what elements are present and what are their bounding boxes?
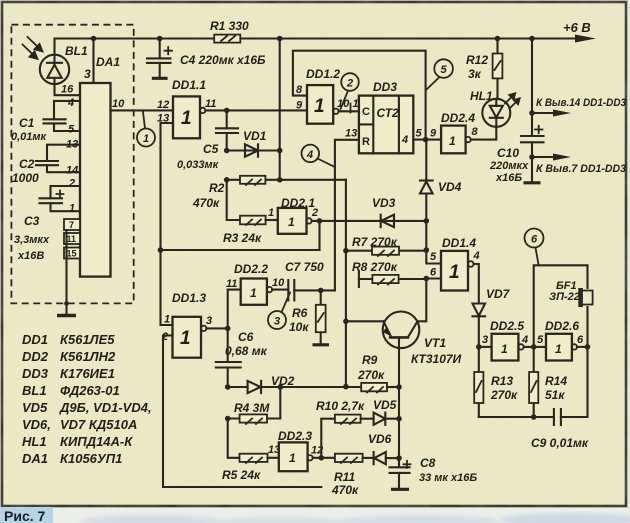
node: VD1 right: [277, 148, 283, 154]
svg-text:R13: R13: [491, 374, 513, 388]
DD1.4 output bubble: [468, 261, 474, 267]
node: VD1 left: [224, 148, 230, 154]
capacitor C9: [554, 409, 561, 425]
svg-text:R5 24к: R5 24к: [222, 468, 261, 482]
wire DD2.5 out to DD2.6 in: [524, 346, 546, 348]
node: R2 left: [224, 177, 230, 183]
wire C5/R2 bus down to R3: [227, 180, 240, 220]
wire DD2.2 input from DD1.3 output: [228, 290, 241, 329]
diode VD4: [420, 181, 433, 194]
wire pin boxes to ground: [65, 230, 67, 315]
svg-text:С4 220мк х16Б: С4 220мк х16Б: [180, 53, 266, 67]
svg-text:R14: R14: [545, 374, 567, 388]
node: DD3 out / feedback / VD4: [423, 137, 429, 143]
capacitor C1: [44, 101, 81, 131]
resistor R10: [335, 415, 374, 424]
diode VD3: [381, 215, 394, 227]
svg-text:Д9Б, VD1-VD4,: Д9Б, VD1-VD4,: [59, 400, 152, 415]
wire DD1.1 output to DD1.2 pin 9: [205, 109, 307, 111]
svg-text:ФД263-01: ФД263-01: [60, 383, 120, 398]
svg-text:R1 330: R1 330: [210, 19, 249, 33]
svg-text:7: 7: [69, 220, 74, 230]
node circle 5: [427, 59, 453, 89]
node: R14 bottom: [531, 414, 537, 420]
node: VD2 right: [278, 384, 284, 390]
svg-text:VD5: VD5: [373, 398, 397, 412]
node: pin 12 net: [319, 455, 325, 461]
svg-text:х16В: х16В: [17, 250, 44, 262]
svg-text:DD2: DD2: [22, 349, 49, 364]
node: rail to C4: [157, 36, 163, 42]
svg-text:КТ3107И: КТ3107И: [411, 352, 462, 366]
svg-text:6: 6: [531, 234, 538, 246]
wire DD1.3 pin 2 to bottom bus: [163, 336, 321, 488]
svg-text:2: 2: [346, 78, 353, 90]
photodiode BL1: [40, 39, 94, 96]
svg-text:DD1.4: DD1.4: [442, 236, 476, 250]
svg-text:R6: R6: [292, 306, 308, 320]
svg-text:4: 4: [306, 149, 313, 161]
figure label Рис. 7: [0, 507, 53, 523]
svg-text:1: 1: [449, 134, 456, 148]
svg-text:8: 8: [296, 84, 303, 96]
node: bias bus bottom: [343, 384, 349, 390]
svg-text:5: 5: [430, 251, 437, 263]
svg-text:R12: R12: [466, 53, 488, 67]
wire bottom RC bus: [479, 416, 554, 418]
svg-text:270к: 270к: [490, 388, 518, 402]
wire pin12 net to R10: [321, 419, 335, 458]
resistor R5: [240, 454, 279, 463]
svg-text:DA1: DA1: [22, 451, 48, 466]
svg-text:DD2.6: DD2.6: [545, 319, 579, 333]
svg-text:9: 9: [296, 100, 303, 112]
node: C5 tap: [224, 108, 230, 114]
wire DD1.4 pin 5: [426, 250, 441, 263]
svg-text:Рис. 7: Рис. 7: [4, 508, 46, 523]
svg-text:VD4: VD4: [438, 180, 462, 194]
svg-text:R: R: [362, 136, 370, 148]
svg-text:DD2.4: DD2.4: [441, 111, 475, 125]
svg-text:HL1: HL1: [22, 434, 47, 449]
wire DD3 R input from reset bus: [335, 140, 359, 291]
gate DD2.1: [278, 208, 307, 234]
node circle 6: [525, 229, 544, 265]
diode VD2: [228, 381, 281, 393]
node: C6 top: [225, 326, 231, 332]
svg-text:470к: 470к: [331, 483, 359, 497]
svg-text:К561ЛЕ5: К561ЛЕ5: [60, 332, 115, 347]
DA1 pin 7 box: [64, 219, 80, 230]
svg-text:220мкх: 220мкх: [489, 160, 529, 172]
gate DD1.1: [173, 96, 200, 138]
svg-text:R2: R2: [209, 181, 225, 195]
node: pin6/R8/collector: [424, 276, 430, 282]
diode VD7: [473, 304, 486, 347]
svg-text:С7 750: С7 750: [285, 260, 324, 274]
svg-text:VD7 КД510А: VD7 КД510А: [60, 417, 137, 432]
capacitor C10 polarized: [521, 126, 544, 143]
svg-text:VD3: VD3: [372, 196, 396, 210]
paper mottle texture: [0, 0, 1, 1]
svg-text:2: 2: [311, 207, 318, 219]
DA1 pin 11 box: [64, 233, 80, 244]
resistor R9: [361, 383, 399, 393]
wire DD3 output to DD2.4: [413, 139, 441, 141]
svg-text:К Выв.7 DD1-DD3: К Выв.7 DD1-DD3: [536, 163, 626, 175]
IC DA1 body: [80, 83, 111, 277]
wire DD1.2 pin 8 feedback from DD3 output: [293, 51, 426, 140]
svg-text:КИПД14А-К: КИПД14А-К: [60, 434, 133, 449]
svg-text:К561ЛН2: К561ЛН2: [60, 349, 116, 364]
wire DD2.6 out down: [561, 347, 588, 417]
svg-text:С9 0,01мк: С9 0,01мк: [531, 436, 589, 450]
svg-text:VD5: VD5: [22, 400, 48, 415]
resistor R6: [316, 290, 326, 343]
DD2.5 output bubble: [518, 344, 523, 349]
svg-text:С5: С5: [203, 142, 219, 156]
svg-text:С1: С1: [19, 116, 35, 130]
wire R4 bus to R5: [228, 419, 240, 458]
svg-text:DD2.3: DD2.3: [278, 429, 312, 443]
resistor R2: [227, 176, 346, 185]
svg-text:1: 1: [555, 342, 562, 356]
svg-text:13: 13: [345, 128, 357, 140]
wire collector riser: [419, 279, 426, 322]
svg-text:16: 16: [61, 84, 74, 96]
svg-text:х16Б: х16Б: [495, 172, 522, 184]
svg-text:12: 12: [157, 99, 169, 111]
svg-text:470к: 470к: [192, 196, 220, 210]
capacitor C2: [36, 145, 80, 173]
gate DD1.2: [307, 85, 333, 124]
svg-text:С8: С8: [420, 456, 436, 470]
pin separator tick: [350, 104, 352, 113]
svg-text:4: 4: [521, 334, 528, 346]
svg-text:1: 1: [268, 207, 274, 219]
svg-text:10: 10: [112, 98, 125, 110]
resistor R11: [335, 454, 374, 463]
svg-text:10: 10: [272, 277, 285, 289]
wire DD1.3 pin 1: [161, 250, 173, 325]
svg-text:VD1: VD1: [243, 129, 267, 143]
svg-text:3: 3: [482, 334, 488, 346]
svg-text:VD6: VD6: [368, 432, 392, 446]
svg-text:3: 3: [84, 67, 91, 81]
svg-text:5: 5: [537, 334, 544, 346]
svg-text:1: 1: [449, 262, 460, 283]
diode VD6: [374, 452, 399, 464]
svg-text:2: 2: [68, 178, 75, 190]
wire lower bus: [161, 249, 320, 251]
svg-text:13: 13: [66, 139, 78, 151]
wire C10 drop from rail: [531, 39, 533, 182]
svg-text:1: 1: [181, 108, 192, 129]
ground bar under R6: [313, 343, 330, 346]
wire DA1 pin 3: [92, 39, 94, 84]
svg-text:DD1.3: DD1.3: [172, 291, 206, 305]
bottom caption strip: [0, 508, 630, 523]
svg-text:R11: R11: [334, 470, 355, 484]
node: VD2 left: [225, 384, 231, 390]
wire DD2.3 output: [313, 457, 335, 459]
svg-text:СТ2: СТ2: [377, 106, 400, 120]
DD2.4 output bubble: [465, 137, 470, 142]
wire DD1.4 output to VD7: [474, 264, 479, 304]
svg-text:1000: 1000: [12, 171, 39, 185]
svg-text:DD2.2: DD2.2: [234, 262, 268, 276]
wire bias bus R2 to VT1/R9: [345, 180, 347, 387]
node circle 4: [302, 145, 335, 167]
svg-text:0,68 мк: 0,68 мк: [225, 344, 268, 358]
wire to pin 14 arrow: [532, 112, 558, 114]
svg-text:14: 14: [66, 165, 78, 177]
capacitor C4 polarized: [147, 39, 172, 78]
wire collector column: [398, 387, 400, 467]
svg-text:11: 11: [205, 98, 216, 110]
resistor R12: [493, 39, 503, 99]
svg-text:4: 4: [67, 97, 74, 109]
svg-text:R10 2,7к: R10 2,7к: [316, 399, 365, 413]
wire DD1.1 pin 13 down to lower bus: [161, 123, 174, 250]
svg-text:5: 5: [68, 124, 75, 136]
node circle 3: [268, 293, 290, 330]
svg-text:R9: R9: [362, 353, 378, 367]
node: DD2.1 out drop: [317, 218, 323, 224]
resistor R1: [214, 35, 240, 43]
svg-text:3: 3: [206, 315, 212, 327]
node: R7 left: [343, 248, 349, 254]
counter DD3 body: [359, 96, 413, 154]
DD1.3 output bubble: [201, 326, 206, 331]
svg-text:С10: С10: [497, 146, 519, 160]
svg-text:1: 1: [314, 96, 325, 117]
node: emitter on bias bus: [343, 319, 349, 325]
svg-text:С6: С6: [238, 330, 254, 344]
svg-text:1: 1: [69, 203, 75, 215]
svg-text:DD1.2: DD1.2: [306, 67, 340, 81]
svg-text:R4 3М: R4 3М: [234, 401, 270, 415]
svg-text:1: 1: [353, 98, 359, 110]
svg-text:DD1.1: DD1.1: [172, 78, 206, 92]
node: R7 right / DD1.4 pin 5: [424, 247, 430, 253]
svg-text:0,033мк: 0,033мк: [177, 159, 220, 171]
node: R4 left: [225, 416, 231, 422]
svg-text:10к: 10к: [289, 320, 309, 334]
wire DD1.4 pin 6: [426, 277, 441, 279]
svg-text:R3 24к: R3 24к: [223, 231, 262, 245]
svg-text:DD3: DD3: [22, 366, 49, 381]
capacitor C5: [216, 110, 238, 150]
svg-text:3,3мкх: 3,3мкх: [14, 234, 50, 246]
gate DD2.3: [279, 442, 308, 471]
svg-text:DD2.5: DD2.5: [490, 319, 524, 333]
gate DD2.4: [441, 126, 466, 154]
wire to pin 7 arrow: [532, 156, 558, 158]
wire DD1.2 output to DD3 C input: [339, 110, 359, 112]
svg-text:VD7: VD7: [486, 287, 511, 301]
svg-text:5: 5: [441, 64, 448, 76]
capacitor C8 polarized: [390, 461, 411, 488]
resistor R13: [474, 347, 483, 417]
wire DD2.6 out: [577, 346, 588, 348]
svg-text:BL1: BL1: [22, 383, 47, 398]
ground bar under C4: [152, 77, 168, 80]
capacitor C7: [272, 280, 335, 301]
node: R2 at rail drop: [277, 177, 283, 183]
svg-text:C: C: [362, 106, 370, 118]
svg-text:1: 1: [164, 314, 170, 326]
ground bar under DA1: [57, 314, 76, 317]
node: R14/loop tap: [531, 344, 537, 350]
svg-text:DA1: DA1: [96, 55, 120, 69]
transistor VT1: [346, 312, 419, 388]
svg-text:DD3: DD3: [373, 80, 397, 94]
gate DD1.3: [173, 317, 202, 358]
svg-text:1: 1: [180, 328, 191, 349]
wire drop to lower bus: [318, 221, 320, 250]
resistor R3: [240, 216, 278, 225]
svg-text:ЗП-22: ЗП-22: [549, 291, 580, 303]
svg-text:С2: С2: [19, 157, 35, 171]
svg-text:5: 5: [416, 128, 423, 140]
svg-text:1: 1: [143, 133, 149, 145]
svg-text:8: 8: [472, 126, 479, 138]
light arrows into BL1: [23, 37, 45, 60]
node circle 1: [137, 112, 155, 147]
node: VD3/VD4 junction: [424, 218, 430, 224]
+6V power rail: [55, 37, 581, 39]
svg-text:С3: С3: [24, 214, 40, 228]
svg-text:3: 3: [274, 316, 280, 328]
node: rail junction above DA1 pin 3: [91, 36, 97, 42]
svg-text:270к: 270к: [357, 368, 385, 382]
svg-text:6: 6: [577, 334, 584, 346]
svg-text:DD1: DD1: [22, 332, 48, 347]
svg-text:VT1: VT1: [424, 336, 446, 350]
svg-text:11: 11: [67, 234, 77, 244]
LED HL1: [482, 92, 521, 127]
resistor R7: [346, 247, 426, 256]
DA1 pin 15 box: [64, 248, 80, 259]
svg-text:К176ИЕ1: К176ИЕ1: [60, 366, 115, 381]
wire DA1 pin 10 to DD1.1 pin 12: [111, 109, 174, 111]
wire VD2 node to R9: [280, 386, 361, 388]
svg-text:1: 1: [288, 215, 295, 229]
svg-text:4: 4: [401, 134, 408, 146]
wire BF1 feedback loop: [534, 265, 588, 347]
dashed optical-module box: [11, 25, 133, 304]
ground bar under C10: [524, 181, 541, 184]
svg-text:1: 1: [501, 342, 508, 356]
svg-text:51к: 51к: [545, 388, 565, 402]
node: VD7/R13/pin3: [476, 344, 482, 350]
+6V arrowhead: [575, 35, 596, 43]
svg-text:К Выв.14 DD1-DD3: К Выв.14 DD1-DD3: [536, 97, 626, 109]
gate DD2.6: [546, 334, 572, 361]
node: R6 top: [318, 288, 324, 294]
node: collector/R9: [396, 384, 402, 390]
node: VD5 join: [396, 416, 402, 422]
resistor R8 with stub terminal: [359, 271, 426, 287]
DD2.3 output bubble: [307, 455, 312, 460]
capacitor C6: [216, 328, 241, 387]
node: bus left: [158, 247, 164, 253]
svg-text:15: 15: [67, 249, 77, 259]
gate DD2.2: [241, 279, 267, 305]
DD2.1 output bubble: [306, 218, 311, 223]
DD2.2 output bubble: [267, 287, 272, 292]
svg-text:1: 1: [250, 286, 257, 300]
node: pin14 tap: [529, 110, 535, 116]
DD2.6 output bubble: [572, 344, 577, 349]
capacitor C3 polarized: [40, 186, 81, 211]
wire DD2.1 output / VD3 line: [312, 220, 427, 222]
ground bar under C8: [391, 488, 409, 491]
wire VD4 branch: [425, 140, 427, 251]
diode VD1: [227, 144, 280, 156]
wire rail drop at R1 right: [279, 39, 281, 180]
gate DD2.5: [492, 334, 519, 361]
svg-text:6: 6: [430, 267, 437, 279]
resistor R4: [228, 387, 281, 424]
svg-text:К1056УП1: К1056УП1: [60, 451, 122, 466]
node: BF1 column: [585, 344, 591, 350]
svg-text:1: 1: [289, 451, 296, 465]
svg-text:9: 9: [430, 128, 437, 140]
svg-text:11: 11: [226, 278, 237, 290]
wire DD2.4 output to HL1: [471, 127, 497, 140]
svg-text:33 мк х16Б: 33 мк х16Б: [419, 472, 477, 484]
diode VD5: [374, 413, 399, 425]
sounder BF1: [578, 288, 592, 347]
node: VD6 join: [396, 455, 402, 461]
svg-text:3к: 3к: [468, 67, 482, 81]
svg-text:+6 В: +6 В: [563, 20, 591, 35]
DD1.1 output bubble: [200, 108, 205, 113]
resistor R14: [529, 347, 538, 417]
svg-text:VD6,: VD6,: [22, 417, 51, 432]
svg-text:4: 4: [473, 250, 480, 262]
DD1.2 output bubble: [333, 109, 338, 114]
wire DD1.3 output: [206, 327, 227, 329]
wire to DD2.5 input: [479, 346, 492, 348]
svg-text:0,01мк: 0,01мк: [11, 131, 48, 143]
node circle 2: [341, 73, 359, 109]
gate DD1.4: [441, 251, 468, 291]
node: pin7 tap: [529, 154, 535, 160]
svg-text:BL1: BL1: [65, 44, 88, 58]
